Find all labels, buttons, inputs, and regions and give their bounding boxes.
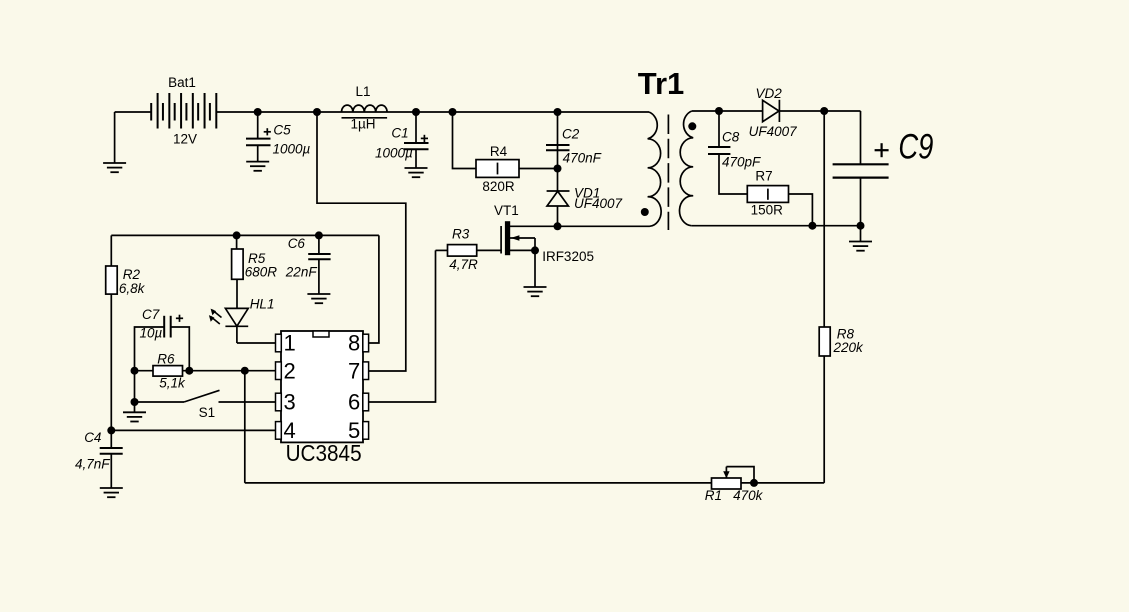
svg-text:1000µ: 1000µ [375, 145, 413, 160]
svg-text:R1: R1 [705, 488, 722, 503]
svg-text:2: 2 [284, 358, 296, 383]
svg-text:R4: R4 [490, 144, 508, 159]
svg-text:C7: C7 [142, 307, 160, 322]
svg-text:C6: C6 [288, 236, 306, 251]
svg-text:4,7nF: 4,7nF [75, 457, 110, 472]
svg-text:VD2: VD2 [756, 86, 783, 101]
svg-text:S1: S1 [199, 405, 216, 420]
svg-text:220k: 220k [833, 340, 865, 355]
svg-text:C5: C5 [273, 122, 291, 137]
svg-text:680R: 680R [245, 264, 278, 279]
svg-text:R6: R6 [157, 352, 175, 367]
svg-text:470k: 470k [733, 488, 764, 503]
svg-text:6: 6 [348, 390, 360, 415]
svg-text:IRF3205: IRF3205 [542, 249, 594, 264]
svg-text:VT1: VT1 [494, 203, 519, 218]
svg-text:150R: 150R [751, 202, 784, 217]
svg-text:3: 3 [284, 390, 296, 415]
svg-text:470nF: 470nF [563, 151, 602, 166]
svg-text:R3: R3 [452, 226, 470, 241]
svg-text:L1: L1 [355, 84, 370, 99]
svg-text:1: 1 [284, 331, 296, 356]
svg-text:Tr1: Tr1 [638, 66, 685, 101]
svg-text:7: 7 [348, 358, 360, 383]
svg-text:UC3845: UC3845 [286, 440, 362, 466]
svg-text:C8: C8 [722, 130, 740, 145]
svg-text:C9: C9 [898, 128, 933, 167]
svg-text:HL1: HL1 [250, 297, 275, 312]
svg-text:UF4007: UF4007 [749, 124, 798, 139]
svg-text:C4: C4 [84, 430, 101, 445]
svg-text:5,1k: 5,1k [159, 376, 186, 391]
svg-text:22nF: 22nF [285, 265, 318, 280]
svg-text:12V: 12V [173, 132, 197, 147]
svg-text:C2: C2 [562, 127, 580, 142]
svg-text:R2: R2 [123, 267, 141, 282]
svg-text:C1: C1 [391, 125, 408, 140]
svg-text:8: 8 [348, 331, 360, 356]
svg-text:6,8k: 6,8k [119, 281, 146, 296]
svg-text:820R: 820R [482, 179, 515, 194]
svg-text:UF4007: UF4007 [574, 196, 623, 211]
svg-text:4,7R: 4,7R [449, 257, 478, 272]
svg-text:R7: R7 [755, 168, 772, 183]
svg-text:Bat1: Bat1 [168, 75, 196, 90]
svg-text:1µH: 1µH [350, 117, 375, 132]
svg-text:1000µ: 1000µ [273, 142, 311, 157]
svg-text:10µ: 10µ [140, 326, 163, 341]
